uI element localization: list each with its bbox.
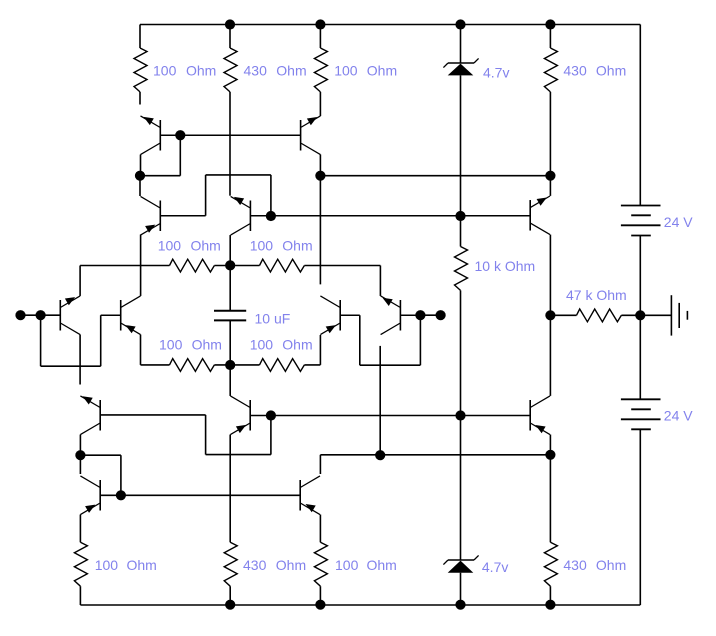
wire Q2 collector drop — [319, 155, 321, 285]
label D2 4.7v — [482, 559, 508, 575]
wire right supply drop — [639, 25, 641, 206]
label R8 100 Ohm — [250, 337, 313, 353]
node ground junction — [635, 310, 645, 320]
node 10k bottom junction — [455, 410, 465, 420]
wire QB1 emitter drop — [229, 435, 231, 543]
label R5 100 Ohm — [158, 237, 221, 253]
output terminal node — [436, 310, 446, 320]
transistor Q11 (QL3) — [80, 396, 100, 435]
resistor R9 10 k Ohm — [455, 216, 468, 416]
resistor R7 100 Ohm (lower row left) — [141, 359, 231, 372]
svg-text:Ohm: Ohm — [186, 63, 216, 79]
capacitor C1 10 uF — [214, 311, 246, 365]
wire right bottom drop — [639, 429, 641, 605]
wire QL4 base lead — [100, 494, 121, 496]
transistor Q6 (QL2) — [121, 296, 141, 335]
svg-text:4.7v: 4.7v — [483, 65, 509, 81]
node top rail junction D — [545, 19, 555, 29]
wire QL1 collector drop — [79, 335, 81, 385]
wire QR2 emitter drop — [379, 266, 381, 296]
wire Q3 collector drop — [140, 235, 142, 296]
wire QR1 base lead — [340, 314, 360, 316]
label R1 100 Ohm — [153, 63, 216, 79]
wire Q8 node drop — [549, 455, 551, 543]
wire QB1 collector riser — [229, 365, 231, 396]
wire QL3 base lead — [100, 414, 205, 416]
label R7 100 Ohm — [159, 337, 222, 353]
resistor R11 100 Ohm (bottom left) — [74, 542, 87, 605]
svg-text:100: 100 — [153, 63, 177, 79]
wire Q3 base top run — [206, 174, 271, 176]
wire Q1-Q2 base line — [180, 134, 300, 136]
svg-text:4.7v: 4.7v — [482, 559, 508, 575]
svg-text:24 V: 24 V — [664, 408, 693, 424]
svg-text:Ohm: Ohm — [127, 557, 157, 573]
wire Q8 collector riser — [549, 315, 551, 396]
resistor R5 100 Ohm (upper row left) — [80, 259, 230, 272]
svg-text:100: 100 — [335, 557, 359, 573]
wire Q5 collector drop — [229, 235, 231, 311]
wire QR2 base lead — [400, 314, 420, 316]
wire Q8 emitter drop — [549, 435, 551, 455]
wire QR2 collector drop — [379, 346, 381, 455]
svg-text:100: 100 — [250, 337, 274, 353]
svg-text:100: 100 — [95, 557, 119, 573]
wire QL2 base loop left — [41, 315, 101, 366]
svg-text:Ohm: Ohm — [282, 337, 312, 353]
wire QL3 node drop — [79, 455, 81, 474]
zener diode D2 4.7v (bottom) — [443, 555, 478, 605]
wire QL3 node to QL4 base — [80, 455, 121, 495]
wire QL3 base U bottom — [206, 454, 271, 456]
label R12 430 Ohm — [243, 557, 306, 573]
node bottom rail junction B — [315, 600, 325, 610]
resistor R13 100 Ohm (bottom) — [314, 542, 327, 605]
wire QR1 emitter riser — [319, 335, 321, 365]
node QL4 base junction — [116, 490, 126, 500]
wire QL3 base U riser — [270, 416, 272, 455]
battery B1 24 V — [621, 206, 661, 236]
svg-text:10 uF: 10 uF — [255, 310, 291, 326]
node QR2 collector junction — [375, 450, 385, 460]
wire battery mid column — [639, 236, 641, 400]
label R10 47 k Ohm — [566, 287, 627, 303]
wire Q3 emitter — [139, 176, 141, 196]
zener diode D1 4.7v (top) — [443, 25, 478, 217]
wire QB1-Q13 base line — [271, 415, 461, 417]
input terminal node — [15, 310, 25, 320]
node Q2 collector junction — [315, 171, 325, 181]
wire Q1 collector — [140, 155, 142, 176]
wire QL4 emitter drop — [79, 515, 81, 543]
resistor R12 430 Ohm (bottom) — [224, 542, 237, 604]
resistor R1 100 Ohm (top left) — [134, 25, 147, 105]
resistor R8 100 Ohm (lower row right) — [230, 359, 320, 372]
svg-text:Ohm: Ohm — [596, 63, 626, 79]
node Q1-Q2 base junction — [175, 130, 185, 140]
svg-text:Ohm: Ohm — [282, 237, 312, 253]
label R13 100 Ohm — [335, 557, 397, 573]
transistor Q12 (QB1) — [230, 396, 250, 435]
wire QL1 emitter riser — [79, 266, 81, 296]
wire bottom supply rail — [80, 604, 640, 606]
node top rail junction C — [455, 19, 465, 29]
svg-text:Ohm: Ohm — [596, 557, 626, 573]
transistor Q15 (QB2) — [300, 476, 320, 515]
svg-text:Ohm: Ohm — [192, 337, 222, 353]
svg-text:100: 100 — [334, 63, 358, 79]
svg-text:430: 430 — [563, 63, 587, 79]
wire QL3 base U drop — [205, 415, 207, 455]
node QL3 collector junction — [75, 450, 85, 460]
battery B2 24 V — [621, 399, 661, 429]
node bottom rail junction C — [455, 600, 465, 610]
transistor Q3 — [141, 196, 161, 235]
svg-text:100: 100 — [250, 237, 274, 253]
label D1 4.7v — [483, 65, 509, 81]
wire QL3 collector drop — [79, 435, 81, 456]
wire Q3 base riser — [205, 175, 207, 216]
wire output row — [320, 454, 550, 456]
svg-text:24 V: 24 V — [664, 214, 693, 230]
wire QL2 emitter drop — [140, 335, 142, 365]
svg-text:Ohm: Ohm — [276, 63, 306, 79]
svg-text:Ohm: Ohm — [276, 557, 306, 573]
wire Q7 collector drop — [549, 235, 551, 316]
wire QB1 base lead — [250, 415, 271, 417]
wire QB2 emitter drop — [319, 515, 321, 543]
label R9 10 k Ohm — [475, 258, 536, 274]
svg-text:47 k Ohm: 47 k Ohm — [566, 287, 627, 303]
wire Q5-Q7 base line — [250, 215, 530, 217]
node lower row junction — [225, 360, 235, 370]
transistor Q10 (QR2) — [381, 296, 401, 335]
wire Q3 base drop — [270, 175, 272, 216]
svg-text:100: 100 — [159, 337, 183, 353]
resistor R3 100 Ohm (top) — [314, 25, 327, 117]
transistor Q2 — [301, 116, 321, 155]
svg-text:10 k Ohm: 10 k Ohm — [475, 258, 536, 274]
wire Q1 base lead — [160, 134, 180, 136]
node R4 bottom junction — [545, 171, 555, 181]
node zener-10k junction — [455, 211, 465, 221]
label R4 430 Ohm — [563, 63, 626, 79]
node Q8 emitter junction — [545, 450, 555, 460]
node Q7 collector junction — [545, 310, 555, 320]
svg-text:430: 430 — [563, 557, 587, 573]
label B1 24 V — [664, 214, 693, 230]
label B2 24 V — [664, 408, 693, 424]
transistor Q4 (QL1) — [60, 296, 80, 335]
node Q1 collector junction — [135, 171, 145, 181]
wire mid cross line (Q2 collector to R4) — [320, 175, 550, 177]
transistor Q1 — [141, 116, 161, 155]
svg-text:100: 100 — [158, 237, 182, 253]
label C1 10 uF — [255, 310, 291, 326]
label R3 100 Ohm — [334, 63, 397, 79]
wire output row corner drop — [319, 455, 321, 474]
label R6 100 Ohm — [250, 237, 313, 253]
wire Q1 base to collector node — [140, 135, 180, 175]
node Q5 base junction — [266, 211, 276, 221]
ground — [640, 295, 687, 335]
resistor R10 47 k Ohm — [550, 309, 640, 322]
node bottom rail junction D — [545, 600, 555, 610]
wire input to QL1 base — [21, 314, 61, 316]
svg-text:Ohm: Ohm — [191, 237, 221, 253]
transistor Q7 — [530, 196, 550, 235]
label R14 430 Ohm — [563, 557, 626, 573]
wire Q3 base lead — [160, 215, 205, 217]
svg-text:Ohm: Ohm — [367, 557, 397, 573]
node top rail junction A — [225, 19, 235, 29]
wire 10k to bottom zener — [460, 416, 462, 561]
node input junction — [36, 310, 46, 320]
node bottom rail junction A — [225, 600, 235, 610]
resistor R6 100 Ohm (upper row right) — [230, 259, 380, 272]
svg-text:430: 430 — [243, 557, 267, 573]
wire QL4-QB2 base line — [121, 494, 300, 496]
transistor Q5 — [231, 196, 251, 235]
wire output stub — [420, 314, 440, 316]
wire QL2 base lead — [101, 314, 121, 316]
wire base line to Q13 — [461, 415, 531, 417]
node top rail junction B — [315, 19, 325, 29]
node upper row junction — [225, 260, 235, 270]
label R11 100 Ohm — [95, 557, 157, 573]
svg-text:Ohm: Ohm — [367, 63, 397, 79]
node output junction — [415, 310, 425, 320]
resistor R4 430 Ohm (top right) — [544, 25, 557, 176]
transistor Q13 (Q8) — [530, 396, 550, 435]
label R2 430 Ohm — [244, 63, 307, 79]
transistor Q9 (QR1) — [320, 296, 340, 335]
node QB1 base junction — [266, 410, 276, 420]
transistor Q14 (QL4) — [80, 476, 100, 515]
wire Q7 emitter drop — [549, 176, 551, 196]
resistor R2 430 Ohm (top) — [224, 25, 237, 196]
svg-text:430: 430 — [244, 63, 268, 79]
wire top supply rail — [140, 24, 640, 26]
wire QR1 base loop — [360, 315, 421, 365]
resistor R14 430 Ohm (bottom right) — [544, 542, 557, 605]
